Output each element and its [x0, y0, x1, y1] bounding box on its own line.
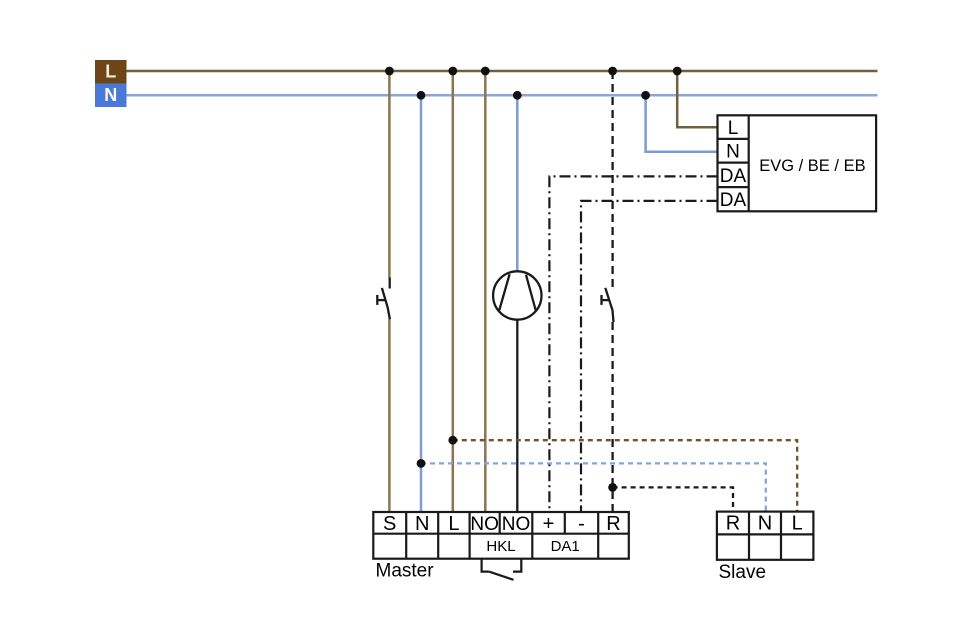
- dashed link black (R line to Slave R): [613, 487, 733, 511]
- wire: EVG N feed (blue): [646, 95, 718, 152]
- wire: EVG L feed (brown): [677, 71, 717, 127]
- EVG / BE / EB box U1: [718, 115, 877, 211]
- wire: fan feed (blue): [516, 95, 519, 271]
- Slave terminal strip: [717, 512, 814, 560]
- wire: L bus: [127, 70, 878, 73]
- wire: DA+ dash-dot: [549, 176, 717, 512]
- wire: R control dashed (upper): [611, 71, 613, 289]
- svg-text:L: L: [105, 62, 116, 82]
- wire: fan out (black): [516, 320, 518, 512]
- svg-text:R: R: [726, 513, 740, 535]
- wire: DA- dash-dot: [581, 201, 718, 512]
- wire: N bus: [127, 94, 878, 97]
- svg-text:N: N: [415, 513, 429, 535]
- svg-text:HKL: HKL: [486, 538, 515, 555]
- dashed link blue (Master N to Slave N): [421, 463, 766, 511]
- Master terminal strip: [373, 512, 629, 559]
- svg-text:-: -: [578, 513, 585, 535]
- svg-text:NO: NO: [470, 514, 499, 535]
- svg-text:NO: NO: [502, 514, 531, 535]
- HKL contact bracket: [482, 559, 522, 580]
- wire: NO1 drop (brown): [484, 71, 487, 512]
- svg-text:S: S: [383, 513, 396, 535]
- junction dot black link: [608, 483, 617, 492]
- svg-text:DA: DA: [720, 190, 747, 211]
- svg-text:L: L: [448, 513, 459, 535]
- svg-text:DA: DA: [720, 166, 747, 187]
- junction dot brown link: [448, 436, 457, 445]
- svg-text:DA1: DA1: [551, 538, 580, 555]
- switch S2 (pushbutton on R line): [601, 288, 614, 322]
- N bus label box: [95, 84, 127, 108]
- svg-text:N: N: [104, 85, 117, 105]
- svg-text:EVG / BE / EB: EVG / BE / EB: [759, 157, 865, 175]
- svg-text:R: R: [606, 513, 620, 535]
- junction dots on L bus: [385, 67, 682, 76]
- svg-text:L: L: [728, 118, 739, 139]
- wire: L drop (brown): [452, 71, 455, 512]
- svg-text:+: +: [543, 513, 555, 535]
- svg-text:L: L: [792, 513, 803, 535]
- L bus label box: [95, 60, 127, 84]
- svg-text:N: N: [726, 142, 740, 163]
- junction dots on N bus: [417, 91, 650, 100]
- wire: S drop (brown, upper part): [388, 71, 391, 278]
- wire: R control dashed (lower): [611, 322, 613, 512]
- svg-text:N: N: [758, 513, 772, 535]
- wire: N drop (blue): [420, 95, 423, 512]
- dashed link brown (Master L to Slave L): [453, 440, 797, 511]
- svg-text:Slave: Slave: [719, 562, 767, 583]
- wire: S drop (brown, lower part): [388, 319, 391, 512]
- svg-text:Master: Master: [376, 561, 435, 582]
- fan M1: [493, 271, 541, 319]
- switch S1 (pushbutton on S wire): [377, 278, 390, 320]
- junction dot blue link: [417, 459, 426, 468]
